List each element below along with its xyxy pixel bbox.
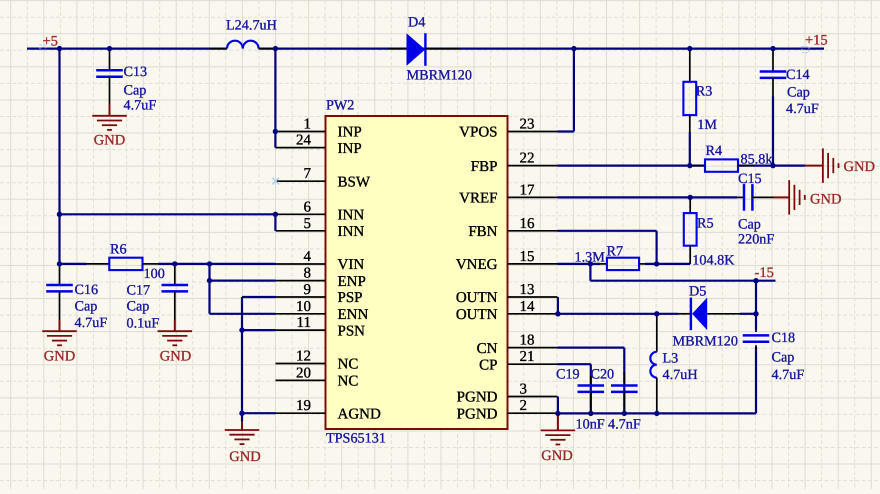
svg-text:3: 3 — [520, 382, 528, 398]
svg-text:VREF: VREF — [459, 191, 497, 207]
svg-text:10: 10 — [296, 299, 311, 315]
svg-text:5: 5 — [304, 216, 312, 232]
svg-text:11: 11 — [297, 315, 311, 331]
svg-text:CN: CN — [477, 341, 498, 357]
net label +5 — [40, 34, 58, 51]
svg-text:23: 23 — [520, 117, 535, 133]
svg-text:INN: INN — [338, 208, 365, 224]
svg-text:8: 8 — [304, 266, 312, 282]
svg-text:4.7uH: 4.7uH — [663, 367, 698, 383]
svg-text:Cap: Cap — [738, 217, 761, 233]
wire VNEG row — [558, 263, 691, 265]
wire INN row — [60, 214, 276, 231]
svg-text:19: 19 — [296, 398, 311, 414]
diode D4 MBRM120 — [388, 15, 472, 84]
svg-text:10nF: 10nF — [576, 416, 605, 432]
svg-text:R6: R6 — [110, 242, 127, 258]
pin 19 AGND — [276, 398, 381, 422]
capacitor C15 — [737, 171, 774, 248]
pin 1 INP — [276, 117, 362, 141]
resistor R7 — [575, 243, 646, 270]
svg-text:D4: D4 — [408, 15, 425, 31]
wire VIN row — [60, 263, 276, 265]
resistor R6 — [87, 242, 165, 282]
svg-text:4.7uF: 4.7uF — [786, 101, 819, 117]
pin 5 INN — [276, 216, 365, 240]
wire VREF row — [558, 196, 738, 198]
svg-text:1: 1 — [304, 117, 312, 133]
wire ENP / ENN branch — [210, 264, 276, 314]
wire CP to C19 — [558, 364, 591, 413]
svg-text:GND: GND — [160, 348, 191, 364]
svg-text:GND: GND — [229, 449, 260, 465]
svg-text:R3: R3 — [696, 84, 713, 100]
svg-text:INP: INP — [338, 125, 362, 141]
capacitor C13 — [96, 49, 156, 114]
pin 15 VNEG — [456, 249, 558, 273]
svg-text:+5: +5 — [43, 34, 58, 50]
svg-text:MBRM120: MBRM120 — [407, 68, 472, 84]
svg-text:R4: R4 — [706, 143, 723, 159]
pin 2 PGND — [457, 398, 558, 422]
pin 18 CN — [477, 333, 558, 357]
wire OUTN rows — [558, 297, 756, 314]
capacitor C19 — [556, 367, 605, 433]
wire CN to C20 — [558, 348, 625, 414]
net label +15 — [802, 33, 828, 53]
pin 22 FBP — [471, 151, 558, 175]
svg-text:1M: 1M — [697, 117, 717, 133]
svg-text:VPOS: VPOS — [459, 125, 497, 141]
ground GND (C16) — [42, 320, 77, 364]
svg-text:R7: R7 — [607, 243, 624, 259]
pin 23 VPOS — [459, 117, 557, 141]
wire FBN to R7/R5 node — [558, 231, 657, 264]
svg-text:INN: INN — [338, 224, 365, 240]
wire FBP row — [558, 165, 806, 167]
svg-text:20: 20 — [296, 365, 311, 381]
svg-text:C18: C18 — [772, 330, 796, 346]
svg-text:2: 2 — [520, 398, 528, 414]
svg-text:15: 15 — [520, 249, 535, 265]
svg-text:PGND: PGND — [457, 406, 498, 422]
capacitor C17 — [127, 264, 189, 332]
svg-text:16: 16 — [520, 216, 536, 232]
wire C18 branch — [755, 314, 757, 414]
ground GND (PGND) — [541, 413, 576, 464]
pin 17 VREF — [459, 182, 557, 206]
svg-text:C13: C13 — [124, 64, 148, 80]
svg-text:PSP: PSP — [338, 290, 363, 306]
svg-text:CP: CP — [479, 357, 497, 373]
svg-text:PGND: PGND — [457, 390, 498, 406]
svg-text:Cap: Cap — [787, 85, 810, 101]
wire VNEG to -15 stub — [590, 264, 775, 314]
svg-text:Cap: Cap — [772, 349, 795, 365]
wire PGND rail (bottom) — [558, 397, 757, 414]
pin 16 FBN — [468, 216, 557, 240]
svg-text:FBP: FBP — [471, 159, 498, 175]
svg-text:7: 7 — [304, 166, 312, 182]
pin 7 BSW — [276, 166, 371, 190]
pin 6 INN — [276, 199, 365, 223]
svg-text:NC: NC — [338, 374, 359, 390]
svg-text:C19: C19 — [556, 367, 580, 383]
svg-text:24: 24 — [296, 133, 312, 149]
svg-text:L3: L3 — [663, 350, 679, 366]
svg-text:C15: C15 — [738, 171, 762, 187]
pin 9 PSP — [276, 282, 363, 306]
svg-text:OUTN: OUTN — [456, 290, 498, 306]
pin 4 VIN — [276, 249, 365, 273]
net label -15 — [755, 265, 774, 281]
pin 24 INP — [276, 133, 362, 157]
svg-text:9: 9 — [304, 282, 312, 298]
svg-text:14: 14 — [520, 299, 536, 315]
svg-text:Cap: Cap — [127, 299, 150, 315]
svg-text:NC: NC — [338, 357, 359, 373]
wire VPOS to +15 rail — [558, 49, 574, 132]
svg-text:18: 18 — [520, 333, 535, 349]
svg-text:220nF: 220nF — [738, 232, 774, 248]
inductor L2 — [209, 18, 277, 49]
resistor R3 — [683, 49, 717, 166]
svg-text:17: 17 — [520, 182, 536, 198]
pin 20 NC — [276, 365, 359, 389]
svg-text:FBN: FBN — [468, 224, 497, 240]
svg-text:R5: R5 — [697, 216, 714, 232]
ground GND (FBP, sideways) — [805, 148, 875, 183]
pin 21 CP — [479, 349, 557, 373]
resistor R4 — [690, 143, 773, 172]
svg-text:GND: GND — [94, 132, 125, 148]
pin 10 ENN — [276, 299, 369, 323]
svg-text:22: 22 — [520, 151, 535, 167]
ground GND (C17) — [158, 320, 193, 364]
svg-text:13: 13 — [520, 282, 535, 298]
svg-text:4.7uF: 4.7uF — [75, 315, 108, 331]
op-amp U PW2 TPS65131 (IC body) — [326, 98, 508, 447]
svg-text:VNEG: VNEG — [456, 257, 498, 273]
svg-text:21: 21 — [520, 349, 535, 365]
svg-text:Cap: Cap — [124, 83, 147, 99]
pin 8 ENP — [276, 266, 366, 290]
no-ERC marker at BSW pin — [273, 178, 280, 185]
svg-text:ENN: ENN — [338, 307, 369, 323]
ground GND (AGND) — [225, 422, 261, 466]
ground GND (C13) — [92, 105, 127, 149]
ground GND (VREF, sideways) — [774, 180, 842, 215]
svg-text:4.7uH: 4.7uH — [242, 18, 277, 34]
pin 14 OUTN — [456, 299, 558, 323]
pin 3 PGND — [457, 382, 558, 406]
svg-text:4.7uF: 4.7uF — [124, 97, 157, 113]
svg-text:104.8K: 104.8K — [692, 253, 735, 269]
svg-text:VIN: VIN — [338, 257, 365, 273]
svg-text:0.1uF: 0.1uF — [127, 316, 160, 332]
svg-text:OUTN: OUTN — [456, 307, 498, 323]
svg-text:C17: C17 — [127, 283, 151, 299]
svg-text:TPS65131: TPS65131 — [326, 431, 386, 447]
svg-text:BSW: BSW — [338, 174, 371, 190]
svg-text:100: 100 — [144, 266, 165, 282]
wire PSP / PSN / AGND branch — [242, 297, 276, 422]
wire +5 rail (top) — [27, 47, 824, 49]
svg-text:L2: L2 — [226, 18, 242, 34]
svg-text:+15: +15 — [805, 33, 828, 49]
svg-text:MBRM120: MBRM120 — [673, 333, 738, 349]
capacitor C16 — [46, 264, 107, 331]
pin 11 PSN — [276, 315, 366, 339]
svg-text:Cap: Cap — [75, 299, 98, 315]
svg-text:GND: GND — [44, 348, 75, 364]
svg-text:GND: GND — [844, 159, 875, 175]
capacitor C18 — [743, 330, 805, 383]
svg-text:C16: C16 — [75, 282, 99, 298]
wire INP drop — [274, 49, 276, 148]
svg-text:85.8k: 85.8k — [741, 151, 774, 167]
resistor R5 — [684, 197, 735, 268]
svg-text:12: 12 — [296, 349, 311, 365]
inductor L3 — [650, 314, 697, 414]
wire +5 vertical drop to VIN — [58, 49, 60, 264]
svg-text:4.7uF: 4.7uF — [772, 367, 805, 383]
svg-text:PW2: PW2 — [326, 98, 354, 114]
svg-text:6: 6 — [304, 199, 312, 215]
svg-text:PSN: PSN — [338, 323, 366, 339]
diode D5 MBRM120 — [673, 284, 741, 350]
pin 13 OUTN — [456, 282, 558, 306]
svg-text:GND: GND — [810, 191, 841, 207]
capacitor C20 — [591, 367, 641, 433]
capacitor C14 — [760, 49, 819, 166]
svg-text:C20: C20 — [591, 367, 615, 383]
svg-text:INP: INP — [338, 141, 362, 157]
svg-text:4: 4 — [304, 249, 312, 265]
svg-text:GND: GND — [541, 448, 572, 464]
pin 12 NC — [276, 349, 359, 373]
svg-text:4.7nF: 4.7nF — [608, 416, 641, 432]
svg-text:AGND: AGND — [338, 406, 381, 422]
svg-text:D5: D5 — [689, 284, 706, 300]
svg-text:ENP: ENP — [338, 274, 366, 290]
svg-text:C14: C14 — [786, 67, 810, 83]
